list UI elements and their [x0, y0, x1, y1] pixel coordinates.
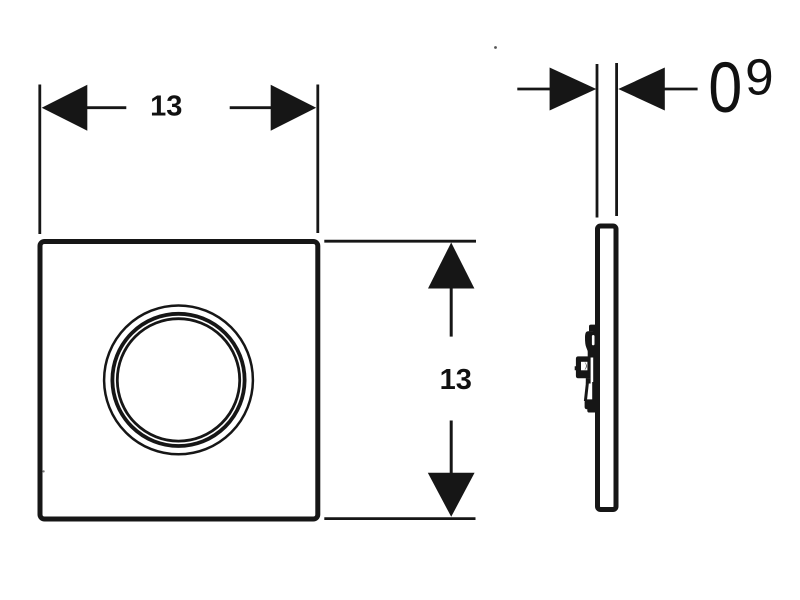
height dim: upper tail line: [450, 287, 453, 337]
clip bottom flange: [585, 399, 597, 409]
height dim: bottom extension line: [324, 517, 475, 520]
height dim: lower tail line: [450, 421, 453, 475]
height dim: top extension line: [324, 240, 476, 243]
svg-text:13: 13: [440, 364, 472, 396]
front view plate outline: [40, 242, 318, 520]
height dim: down arrow: [428, 473, 475, 517]
width dim: right tail line: [230, 106, 272, 109]
width dim: left arrow: [42, 85, 88, 131]
button bezel ring outer: [112, 314, 244, 446]
thickness dim: left extension line: [596, 64, 599, 218]
clip upper block: [585, 331, 597, 351]
clip leg diagonal: [584, 380, 589, 401]
clip latch notch squiggle: [585, 362, 587, 371]
clip lower neck: [586, 378, 591, 383]
clip upper block slot: [592, 335, 595, 345]
thickness dim: right arrow: [618, 68, 665, 111]
svg-text:9: 9: [745, 48, 773, 105]
side view plate outline: [598, 226, 617, 510]
thickness dim: left arrow: [550, 68, 597, 111]
side view mounting clip: [575, 325, 597, 413]
thickness dim: right tail line: [663, 88, 698, 91]
width dim: left tail line: [86, 106, 126, 109]
svg-text:0: 0: [708, 49, 742, 129]
thickness dim: right extension line: [615, 63, 618, 216]
width dim: right extension line: [316, 85, 319, 234]
width dim: left extension line: [38, 85, 41, 235]
clip neck upper: [588, 346, 597, 358]
height dim: up arrow: [428, 243, 474, 289]
width dim: right arrow: [271, 85, 317, 131]
clip middle latch: [575, 356, 591, 378]
button outer circle: [104, 306, 253, 455]
clip leg right edge: [592, 382, 594, 400]
clip top flange: [589, 325, 597, 332]
button bezel ring inner: [117, 319, 239, 441]
clip bottom step: [587, 409, 596, 413]
clip latch notch: [581, 362, 587, 371]
thickness dim: left tail line: [517, 88, 551, 91]
svg-text:13: 13: [150, 91, 182, 123]
clip spine bar: [593, 331, 596, 401]
stray dot left: [43, 470, 45, 472]
stray dot upper middle: [494, 46, 497, 49]
